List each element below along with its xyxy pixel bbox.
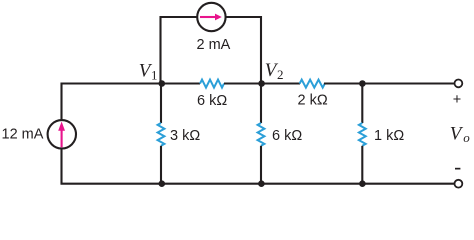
resistor R 1k vertical zigzag bbox=[359, 123, 366, 146]
node junction dot top rail at 1k branch bbox=[359, 80, 366, 87]
wire: top rail between 6k and 2k resistors bbox=[224, 82, 300, 84]
node label V1 bbox=[139, 61, 158, 83]
wire: left branch below current source bbox=[60, 148, 62, 185]
wire: V2 branch below 6k resistor bbox=[260, 146, 262, 184]
resistor R 3k vertical zigzag bbox=[158, 123, 165, 146]
svg-text:2 kΩ: 2 kΩ bbox=[298, 93, 328, 109]
svg-text:+: + bbox=[453, 92, 461, 108]
svg-text:V: V bbox=[450, 124, 464, 145]
junction dot bottom rail at V1 branch bbox=[159, 180, 166, 187]
svg-text:6 kΩ: 6 kΩ bbox=[197, 93, 227, 109]
output terminal - (open circle bottom) bbox=[455, 180, 463, 188]
resistor R 6k horizontal zigzag bbox=[200, 80, 224, 88]
wire: bottom rail bbox=[61, 183, 455, 185]
wire: top loop left vertical and upper-left segment bbox=[161, 17, 198, 84]
resistor R 2k horizontal zigzag bbox=[300, 80, 325, 88]
node V1 junction dot (top) bbox=[159, 80, 166, 87]
svg-text:12 mA: 12 mA bbox=[2, 127, 44, 143]
node V2 junction dot (top) bbox=[258, 80, 265, 87]
node label V2 bbox=[265, 60, 284, 82]
wire: top rail from left source to 6k resistor bbox=[61, 82, 201, 84]
wire: 1k branch above resistor bbox=[361, 84, 363, 124]
wire: V1 branch above 3k resistor bbox=[160, 84, 162, 124]
wire: V2 branch above 6k resistor bbox=[260, 84, 262, 124]
wire: top rail from 2k resistor to output terminal bbox=[324, 82, 454, 84]
junction dot bottom rail at V2 branch bbox=[258, 180, 265, 187]
svg-text:3 kΩ: 3 kΩ bbox=[170, 128, 200, 144]
current source I2 circle (2 mA) bbox=[197, 3, 225, 31]
svg-text:2 mA: 2 mA bbox=[197, 37, 231, 53]
wire: 1k branch below resistor bbox=[361, 146, 363, 184]
current source I1 circle (12 mA) bbox=[48, 120, 76, 148]
current source I1 arrow (points up) bbox=[58, 122, 65, 148]
label minus sign bbox=[455, 168, 460, 170]
resistor R 6k vertical zigzag bbox=[258, 123, 265, 146]
wire: V1 branch below 3k resistor bbox=[160, 146, 162, 184]
junction dot bottom rail at 1k branch bbox=[359, 180, 366, 187]
wire: left branch above current source bbox=[60, 83, 62, 121]
current source I2 arrow (points right) bbox=[200, 14, 222, 21]
svg-text:1: 1 bbox=[151, 68, 158, 83]
output label Vo bbox=[450, 124, 471, 146]
wire: top loop upper-right segment and right vertical down to V2 bbox=[226, 17, 261, 84]
svg-text:2: 2 bbox=[277, 67, 284, 82]
output terminal + (open circle top) bbox=[455, 80, 463, 88]
svg-text:6 kΩ: 6 kΩ bbox=[272, 128, 302, 144]
svg-text:o: o bbox=[463, 130, 470, 145]
svg-text:1 kΩ: 1 kΩ bbox=[374, 128, 404, 144]
